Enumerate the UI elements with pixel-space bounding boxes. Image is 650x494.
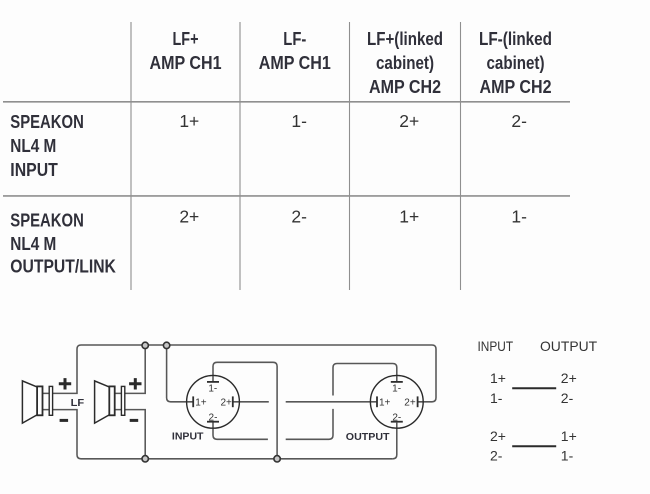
wire INPUT 2+ to crossover gap — [233, 401, 269, 403]
speaker SP2 + sign — [129, 378, 141, 389]
INPUT pin 1- bar — [207, 381, 219, 383]
junction dot top rail 1 — [142, 342, 148, 348]
svg-text:LF-: LF- — [283, 29, 306, 49]
table column line 1 — [130, 22, 132, 290]
wire speaker SP1 + up to top rail — [43, 345, 81, 393]
OUTPUT pin 2+ bar — [417, 396, 419, 407]
svg-text:2-: 2- — [511, 111, 527, 131]
svg-text:INPUT: INPUT — [10, 160, 58, 180]
table column line 2 — [239, 22, 241, 290]
svg-text:cabinet): cabinet) — [376, 53, 434, 73]
INPUT pin 1+ bar — [192, 396, 194, 407]
speakon connector INPUT circle — [187, 375, 240, 428]
wire bottom rail — [81, 458, 393, 460]
svg-text:OUTPUT/LINK: OUTPUT/LINK — [10, 257, 116, 277]
INPUT pin 2+ bar — [232, 396, 234, 407]
wire crossover gap to OUTPUT 1+ — [286, 401, 377, 403]
wire top rail down to OUTPUT 2+ — [419, 345, 437, 402]
svg-text:2-: 2- — [561, 390, 574, 406]
svg-text:2-: 2- — [490, 447, 503, 463]
svg-text:LF+(linked: LF+(linked — [367, 29, 443, 49]
speaker SP1 magnet plate 2 — [49, 386, 52, 415]
svg-text:2+: 2+ — [179, 207, 199, 227]
svg-text:1+: 1+ — [561, 428, 577, 444]
svg-text:2-: 2- — [291, 207, 307, 227]
table row separator line — [3, 195, 570, 197]
table header separator line — [3, 101, 570, 103]
svg-text:INPUT: INPUT — [172, 432, 204, 443]
svg-text:2+: 2+ — [490, 428, 506, 444]
wire 2- link after crossover up to second gap — [286, 409, 333, 439]
speaker SP2 magnet plate 1 — [109, 386, 114, 415]
svg-text:1-: 1- — [392, 383, 401, 394]
wire INPUT 1- loop down to bottom rail junction — [213, 362, 277, 459]
wire speaker SP1 - down to bottom rail — [43, 410, 81, 459]
svg-text:1+: 1+ — [379, 397, 391, 408]
table column line 4 — [460, 22, 462, 290]
svg-text:AMP CH1: AMP CH1 — [259, 53, 331, 73]
junction dot bottom rail 1 — [142, 456, 148, 462]
svg-text:1+: 1+ — [195, 397, 207, 408]
svg-text:NL4 M: NL4 M — [10, 234, 56, 254]
svg-text:NL4 M: NL4 M — [10, 136, 56, 156]
legend link wire 1 — [512, 387, 556, 389]
speaker SP1 - sign — [60, 419, 69, 422]
speaker SP1 + sign — [59, 378, 71, 389]
svg-text:1+: 1+ — [399, 207, 419, 227]
svg-text:OUTPUT: OUTPUT — [540, 338, 598, 354]
svg-text:1-: 1- — [291, 111, 307, 131]
wire top rail junction to INPUT 1+ — [167, 345, 193, 401]
speaker SP2 - sign — [130, 419, 139, 422]
svg-text:2+: 2+ — [399, 111, 419, 131]
svg-text:AMP CH2: AMP CH2 — [480, 77, 552, 97]
wire bottom rail up to OUTPUT 2- — [393, 423, 397, 459]
svg-text:AMP CH1: AMP CH1 — [150, 53, 222, 73]
svg-text:1+: 1+ — [490, 370, 506, 386]
svg-text:OUTPUT: OUTPUT — [346, 432, 390, 443]
svg-text:2+: 2+ — [561, 370, 577, 386]
speaker SP1 cone — [22, 381, 37, 423]
OUTPUT pin 1+ bar — [376, 396, 378, 407]
speaker SP2 cone — [95, 381, 110, 423]
svg-text:1-: 1- — [511, 207, 527, 227]
OUTPUT pin 2- bar — [391, 421, 403, 423]
junction dot bottom rail 2 — [274, 456, 280, 462]
svg-text:1-: 1- — [490, 390, 503, 406]
svg-text:SPEAKON: SPEAKON — [10, 210, 84, 230]
svg-text:LF: LF — [71, 398, 85, 409]
svg-text:SPEAKON: SPEAKON — [10, 112, 84, 132]
junction dot top rail 2 — [163, 342, 169, 348]
svg-text:2+: 2+ — [404, 397, 416, 408]
speaker SP2 magnet plate 2 — [121, 386, 124, 415]
svg-text:INPUT: INPUT — [478, 338, 514, 354]
wire top rail — [81, 344, 432, 346]
legend link wire 2 — [512, 445, 556, 447]
wire speaker SP2 - to bottom rail junction — [115, 410, 145, 459]
svg-text:1+: 1+ — [179, 111, 199, 131]
svg-text:AMP CH2: AMP CH2 — [369, 77, 441, 97]
svg-text:cabinet): cabinet) — [487, 53, 545, 73]
svg-text:2+: 2+ — [221, 397, 233, 408]
svg-text:1-: 1- — [561, 447, 574, 463]
speaker SP1 magnet plate 1 — [37, 386, 42, 415]
svg-text:LF+: LF+ — [173, 29, 199, 49]
svg-text:LF-(linked: LF-(linked — [479, 29, 552, 49]
wire speaker SP2 + to top rail junction — [115, 345, 145, 393]
speakon connector OUTPUT circle — [370, 375, 423, 428]
svg-text:2-: 2- — [209, 412, 218, 423]
svg-text:1-: 1- — [208, 383, 217, 394]
wire INPUT 2- down and right to crossover gap — [213, 422, 268, 440]
OUTPUT pin 1- bar — [391, 381, 403, 383]
table column line 3 — [349, 22, 351, 290]
wire 2- link above crossover to OUTPUT 1- — [333, 364, 397, 396]
svg-text:2-: 2- — [392, 412, 401, 423]
INPUT pin 2- bar — [207, 421, 219, 423]
